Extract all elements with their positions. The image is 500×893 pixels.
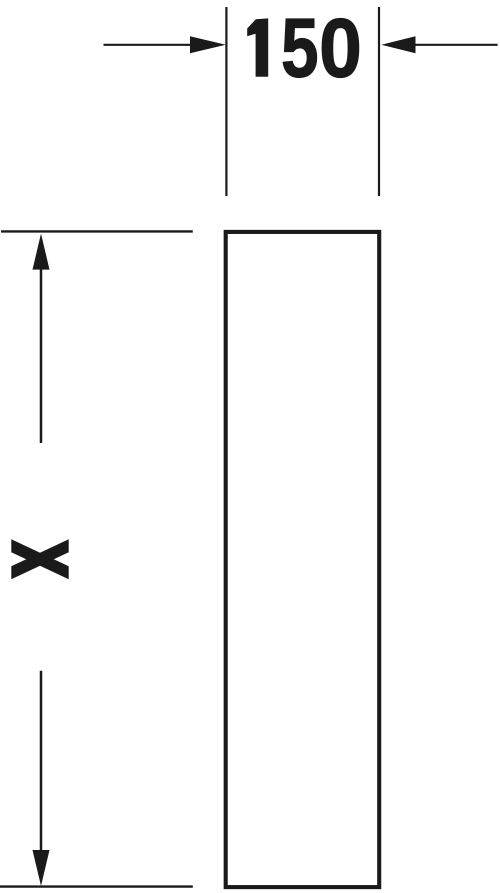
svg-text:0: 0	[319, 0, 362, 94]
svg-text:5: 5	[281, 2, 319, 95]
